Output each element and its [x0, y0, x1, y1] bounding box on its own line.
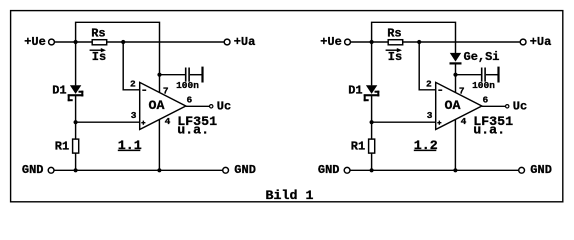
wire node B2 to +Ua terminal	[419, 41, 520, 43]
wire pin7 column into op-amp top	[159, 75, 161, 93]
wire node B2 down to pin 2	[419, 42, 436, 90]
wire Rs to node B	[107, 41, 124, 43]
wire node A riser and top feedback run to pin7 column	[76, 22, 160, 74]
resistor Rs (right)	[388, 40, 403, 45]
svg-text:OA: OA	[149, 98, 165, 113]
svg-text:Is: Is	[92, 50, 106, 64]
svg-text:Uc: Uc	[513, 100, 527, 114]
wire node C down to R1	[75, 122, 77, 139]
wire GND rail	[350, 169, 518, 171]
svg-text:u.a.: u.a.	[473, 122, 505, 137]
svg-text:Uc: Uc	[217, 100, 231, 114]
R1-GND junction dot (right)	[370, 168, 374, 172]
svg-text:+Ua: +Ua	[530, 35, 552, 49]
capacitor C1 100n	[185, 67, 204, 83]
svg-text:100n: 100n	[472, 80, 495, 91]
wire cap lead right	[486, 74, 498, 76]
zener diode D1	[68, 85, 84, 101]
op-amp plus input mark (right)	[437, 121, 441, 125]
wire D1 cathode to node C2	[371, 96, 373, 122]
wire node B to +Ua terminal	[123, 41, 224, 43]
terminal +Ua (right)	[520, 39, 526, 45]
terminal GND right	[223, 167, 229, 173]
current arrow Is (right)	[386, 48, 402, 52]
wire +Ue terminal to node A2	[351, 41, 372, 43]
svg-text:7: 7	[459, 85, 465, 96]
svg-text:6: 6	[483, 94, 489, 105]
svg-text:4: 4	[165, 116, 171, 127]
wire node C2 down to R1	[371, 122, 373, 139]
zener diode D1 (right)	[364, 85, 380, 101]
terminal GND right (right circuit)	[519, 167, 525, 173]
svg-text:6: 6	[187, 94, 193, 105]
pin4-GND junction dot	[157, 168, 161, 172]
wire pin 4 down to GND rail	[158, 120, 160, 171]
node C junction dot	[74, 120, 78, 124]
svg-text:Is: Is	[388, 50, 402, 64]
R1-GND junction dot	[74, 168, 78, 172]
svg-text:100n: 100n	[176, 80, 199, 91]
svg-text:D1: D1	[52, 83, 66, 97]
terminal +Ue	[49, 39, 55, 45]
wire cap lead left	[160, 74, 186, 76]
border frame	[11, 11, 563, 202]
svg-text:Rs: Rs	[387, 27, 401, 41]
wire node B down to pin 2	[123, 42, 140, 90]
svg-text:GND: GND	[530, 163, 552, 177]
terminal +Ue (right)	[345, 39, 351, 45]
wire pin 4 down to GND rail	[454, 120, 456, 171]
svg-text:4: 4	[461, 116, 467, 127]
resistor Rs	[92, 40, 107, 45]
wire node A2 down to diode D1	[371, 42, 373, 85]
svg-text:OA: OA	[445, 98, 461, 113]
wire node A2 riser and top run to diode column	[372, 22, 456, 53]
wire diode Ge,Si cathode to cap junction	[455, 65, 457, 75]
svg-text:GND: GND	[22, 163, 44, 177]
resistor R1	[73, 139, 79, 153]
wire R1 to GND rail	[371, 153, 373, 170]
wire op-amp output to Uc terminal	[186, 105, 210, 107]
svg-text:D1: D1	[348, 83, 362, 97]
svg-text:R1: R1	[351, 140, 365, 154]
op-amp plus input mark	[141, 121, 145, 125]
svg-text:Rs: Rs	[91, 27, 105, 41]
wire GND rail	[54, 169, 222, 171]
svg-text:3: 3	[131, 110, 137, 121]
svg-text:2: 2	[426, 79, 432, 90]
capacitor C2 100n	[481, 67, 500, 83]
wire Rs to node B2	[403, 41, 420, 43]
wire cap lead right	[190, 74, 202, 76]
wire cap lead left	[456, 74, 482, 76]
svg-text:GND: GND	[234, 163, 256, 177]
op-amp U2 (OA LF351)	[436, 82, 482, 129]
node B junction dot	[121, 40, 125, 44]
svg-text:u.a.: u.a.	[177, 122, 209, 137]
svg-text:GND: GND	[318, 163, 340, 177]
terminal +Ua	[224, 39, 230, 45]
terminal Uc (right)	[506, 105, 509, 108]
svg-text:+Ue: +Ue	[24, 35, 46, 49]
node A2 junction dot	[370, 40, 374, 44]
svg-text:3: 3	[427, 110, 433, 121]
cap junction dot on pin7 column	[157, 73, 161, 77]
svg-text:Ge,Si: Ge,Si	[464, 50, 500, 64]
op-amp minus input mark (right)	[438, 89, 442, 91]
wire node A2 to Rs	[372, 41, 389, 43]
op-amp U1 (OA LF351)	[140, 82, 186, 129]
svg-text:+Ue: +Ue	[320, 35, 342, 49]
node B2 junction dot	[417, 40, 421, 44]
wire node A to Rs	[76, 41, 93, 43]
wire op-amp output to Uc terminal	[482, 105, 506, 107]
wire R1 to GND rail	[75, 153, 77, 170]
diode Ge,Si	[450, 53, 462, 65]
pin4-GND junction dot (right)	[453, 168, 457, 172]
circuit variant label 1.1	[118, 138, 142, 153]
wire node C to pin 3	[76, 121, 140, 123]
svg-text:Bild 1: Bild 1	[266, 188, 314, 203]
svg-text:2: 2	[130, 79, 136, 90]
svg-text:R1: R1	[55, 140, 69, 154]
cap junction dot (right)	[453, 73, 457, 77]
current arrow Is	[90, 48, 106, 52]
node A junction dot	[74, 40, 78, 44]
node C2 junction dot	[370, 120, 374, 124]
op-amp minus input mark	[142, 89, 146, 91]
terminal GND left (right circuit)	[344, 167, 350, 173]
wire pin7 column into op-amp top	[455, 75, 457, 93]
svg-text:+Ua: +Ua	[234, 35, 256, 49]
wire D1 cathode to node C	[75, 96, 77, 122]
circuit variant label 1.2	[414, 138, 438, 153]
terminal Uc	[210, 105, 213, 108]
svg-text:7: 7	[163, 85, 169, 96]
wire node A down to diode D1	[75, 42, 77, 85]
resistor R1 (right)	[369, 139, 375, 153]
wire node C2 to pin 3	[372, 121, 436, 123]
terminal GND left	[48, 167, 54, 173]
wire +Ue terminal to node A	[55, 41, 76, 43]
